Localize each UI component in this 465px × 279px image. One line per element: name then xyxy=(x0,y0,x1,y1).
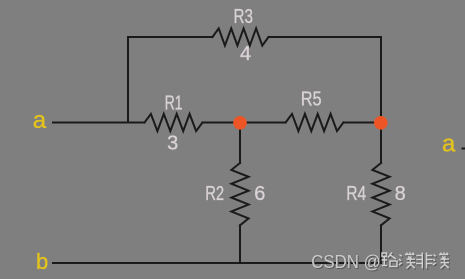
watermark CJK glyph strokes (shadow) xyxy=(383,254,451,270)
wire: node B down to R4 xyxy=(380,123,382,164)
resistor R1 xyxy=(145,114,203,131)
wire: right edge stub near a xyxy=(463,148,465,150)
svg-text:a: a xyxy=(33,107,47,134)
node A junction dot xyxy=(233,116,247,130)
svg-text:4: 4 xyxy=(240,43,251,65)
svg-text:R3: R3 xyxy=(233,6,253,28)
wire: bottom from b xyxy=(53,262,381,264)
svg-text:R4: R4 xyxy=(346,183,366,205)
svg-text:R1: R1 xyxy=(165,92,183,114)
svg-text:3: 3 xyxy=(167,133,178,155)
watermark CJK glyph strokes xyxy=(382,252,450,268)
wire: R4 to bottom xyxy=(380,225,382,263)
wire: R1 to node A xyxy=(203,122,241,124)
svg-text:b: b xyxy=(36,249,48,274)
resistor R4 xyxy=(372,163,389,225)
svg-text:R5: R5 xyxy=(301,89,322,111)
node B junction dot xyxy=(374,116,388,130)
svg-text:CSDN @: CSDN @ xyxy=(311,251,381,272)
wire: R5 to node B xyxy=(343,122,381,124)
wire: top left to R3 xyxy=(128,36,213,38)
svg-text:a: a xyxy=(442,130,456,157)
wire: node A down to R2 xyxy=(239,123,241,164)
wire: R3 to top right corner xyxy=(269,36,382,38)
resistor R2 xyxy=(231,163,248,225)
svg-text:6: 6 xyxy=(254,183,265,205)
svg-text:8: 8 xyxy=(395,183,406,205)
resistor R5 xyxy=(286,114,344,131)
wire: R2 to bottom xyxy=(239,225,241,263)
wire: main left from a to R1 xyxy=(53,122,145,124)
wire: left vertical branch up to top loop xyxy=(127,37,129,123)
wire: right vertical top to node B xyxy=(380,37,382,123)
svg-text:R2: R2 xyxy=(205,183,224,205)
wire: node A to R5 xyxy=(240,122,286,124)
resistor R3 xyxy=(213,28,269,45)
